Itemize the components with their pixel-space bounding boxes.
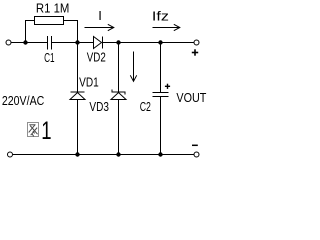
polarity plus at C2 bbox=[165, 84, 170, 89]
junction dot top VD1 node bbox=[75, 40, 79, 44]
current arrow Ifz bbox=[153, 24, 180, 30]
junction dot bottom VD3 node bbox=[116, 152, 120, 156]
wire top rail between C1 and VD2 bbox=[52, 42, 94, 44]
wire VD1 branch lower bbox=[77, 100, 79, 155]
svg-text:C1: C1 bbox=[44, 50, 55, 65]
svg-text:I: I bbox=[98, 8, 102, 23]
figure caption 图 glyph bbox=[28, 123, 39, 137]
diode VD1 bbox=[70, 92, 85, 100]
current arrow I bbox=[85, 24, 114, 30]
polarity plus at output terminal bbox=[192, 49, 198, 55]
junction dot top R1/C1 left node bbox=[23, 40, 27, 44]
wire VD1 branch upper bbox=[77, 43, 79, 93]
figure caption numeral 1 bbox=[41, 116, 51, 144]
svg-text:VD3: VD3 bbox=[89, 99, 109, 114]
svg-text:1: 1 bbox=[41, 116, 51, 144]
junction dot bottom VD1 node bbox=[75, 152, 79, 156]
current arrow down into VD3 bbox=[130, 52, 136, 82]
wire C2 branch lower bbox=[160, 97, 162, 155]
wire C2 branch upper bbox=[160, 43, 162, 93]
svg-text:VOUT: VOUT bbox=[176, 90, 206, 105]
capacitor C1 plates bbox=[48, 36, 52, 50]
diode VD2 bbox=[94, 37, 103, 49]
svg-text:220V/AC: 220V/AC bbox=[2, 93, 44, 108]
wire VD3 branch upper bbox=[118, 43, 120, 93]
capacitor C2 plates bbox=[153, 93, 169, 97]
wire R1 branch right riser bbox=[64, 21, 78, 43]
terminal input top-left bbox=[6, 40, 11, 45]
wire top rail left segment bbox=[11, 42, 48, 44]
resistor R1 body bbox=[35, 17, 64, 25]
wire VD3 branch lower bbox=[118, 100, 120, 155]
svg-text:VD1: VD1 bbox=[79, 75, 99, 90]
terminal input bottom-left bbox=[8, 152, 13, 157]
terminal output minus bottom-right bbox=[194, 152, 199, 157]
polarity minus at output terminal bbox=[192, 144, 198, 146]
junction dot bottom C2 node bbox=[158, 152, 162, 156]
zener diode VD3 bbox=[111, 90, 126, 100]
junction dot top VD3 node bbox=[116, 40, 120, 44]
wire R1 branch left riser bbox=[26, 21, 35, 43]
svg-text:C2: C2 bbox=[140, 99, 151, 114]
svg-text:VD2: VD2 bbox=[87, 50, 106, 65]
terminal output plus top-right bbox=[194, 40, 199, 45]
junction dot top C2 node bbox=[158, 40, 162, 44]
wire top rail right segment bbox=[103, 42, 195, 44]
wire bottom rail bbox=[13, 154, 194, 156]
svg-text:R1 1M: R1 1M bbox=[36, 1, 70, 16]
svg-text:Ifz: Ifz bbox=[152, 9, 169, 24]
